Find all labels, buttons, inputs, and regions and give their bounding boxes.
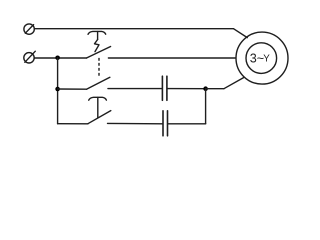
terminal X1 [24,24,34,34]
wire branch 3 left [58,88,87,90]
wire to motor bottom horizontal [206,88,224,90]
svg-text:3~: 3~ [250,51,264,65]
node B junction dot [55,87,60,92]
motor label 3~Y [250,51,270,65]
wire branch 3 right [167,88,205,90]
actuator button cap of SB [89,97,107,100]
actuator stem of SA [97,32,99,40]
actuator button cap of SA [88,31,106,34]
spring zigzag of SA [95,40,100,52]
switch SA1 blade (pole 1) [87,47,111,59]
node C junction dot [203,86,208,91]
node A junction dot [55,56,60,61]
wire L2 right segment to motor [108,57,235,59]
capacitor C1 [162,76,167,100]
capacitor C2 [163,111,168,136]
switch SA2 blade (pole 2) [87,77,110,89]
motor M1 outer circle [236,32,288,84]
svg-text:Y: Y [263,54,270,65]
mechanical link dashed line [98,58,100,76]
terminal X2 [24,51,36,63]
wire branch 4 right [168,123,206,125]
wire L1 top [35,28,234,30]
wire L1 diagonal to motor [234,29,248,38]
wire to motor bottom diagonal [224,78,244,89]
wire right vertical [205,89,207,124]
wire left vertical bus [57,58,59,124]
wire branch 4 left [58,123,88,125]
motor M1 inner circle [246,43,277,74]
wire L2 left segment [35,57,87,59]
actuator stem of SB [97,98,99,118]
switch SB blade (starting pole) [88,111,111,124]
wire branch 3 middle [108,88,162,90]
wire branch 4 middle [108,122,163,124]
